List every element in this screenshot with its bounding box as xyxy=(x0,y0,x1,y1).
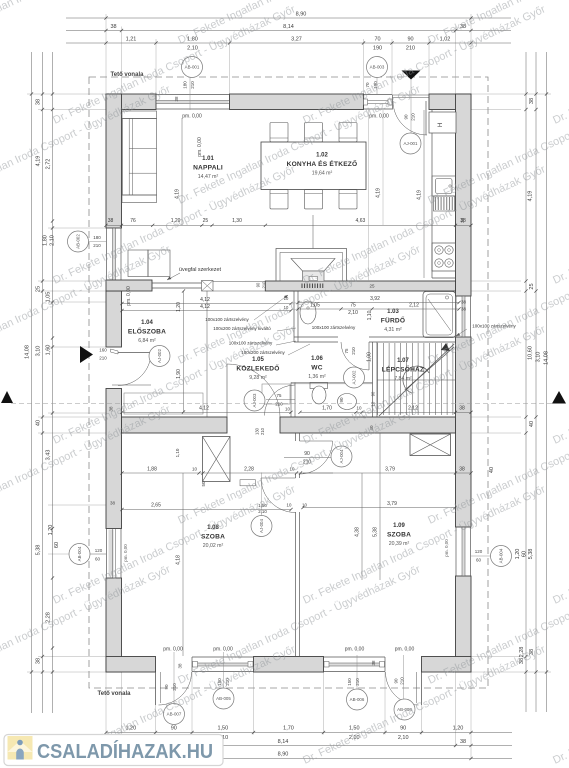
right dimension lines xyxy=(456,52,552,712)
svg-text:KÖZLEKEDŐ: KÖZLEKEDŐ xyxy=(236,364,279,373)
svg-text:üvegfal szerkezet: üvegfal szerkezet xyxy=(179,267,221,273)
svg-text:1.07: 1.07 xyxy=(397,358,409,364)
interior wall pier left of glass wall xyxy=(106,280,152,291)
svg-text:90: 90 xyxy=(404,114,409,120)
svg-text:KONYHA ÉS ÉTKEZŐ: KONYHA ÉS ÉTKEZŐ xyxy=(287,159,358,168)
svg-text:10: 10 xyxy=(285,407,290,412)
dining chairs top row xyxy=(270,123,288,142)
svg-text:1,10: 1,10 xyxy=(367,310,373,320)
window AB-002 (1,80) left wall xyxy=(106,228,108,291)
section triangle far left xyxy=(1,391,13,403)
svg-text:Tető vonala: Tető vonala xyxy=(98,691,132,697)
svg-text:8,90: 8,90 xyxy=(278,752,289,758)
svg-text:1,36 m²: 1,36 m² xyxy=(308,374,326,380)
svg-text:210: 210 xyxy=(411,113,416,121)
sofa in living room xyxy=(122,111,157,119)
marker AB-004 left wall xyxy=(90,553,106,555)
wc hand basin xyxy=(338,394,357,410)
interior dim line bedroom 1.09 top xyxy=(303,472,471,474)
svg-text:150: 150 xyxy=(347,678,352,686)
exterior wall bottom segments xyxy=(106,657,156,673)
kitchen stove with burners xyxy=(432,243,456,271)
svg-text:3,10: 3,10 xyxy=(536,352,542,363)
svg-text:76: 76 xyxy=(130,218,136,224)
svg-text:1,00: 1,00 xyxy=(367,352,373,362)
svg-text:90: 90 xyxy=(164,684,169,690)
svg-text:1,70: 1,70 xyxy=(283,726,294,732)
svg-text:38: 38 xyxy=(460,218,465,224)
marker AJ-001 xyxy=(410,79,412,133)
marker AJ-002 bathroom door xyxy=(344,367,365,388)
closet block with X in bedroom 1.09 xyxy=(410,434,451,456)
svg-text:AJ-002: AJ-002 xyxy=(157,348,162,362)
wc toilet xyxy=(310,383,328,389)
svg-text:1.06: 1.06 xyxy=(311,356,323,362)
bottom dimension lines xyxy=(104,672,512,760)
door AB-007 bottom wall opening with swing arc xyxy=(155,657,157,672)
svg-text:1.02: 1.02 xyxy=(316,153,328,159)
svg-text:210: 210 xyxy=(260,427,265,435)
svg-text:25: 25 xyxy=(36,286,42,292)
svg-text:180: 180 xyxy=(183,81,188,89)
svg-text:14,08: 14,08 xyxy=(544,351,550,365)
svg-text:7,84 m²: 7,84 m² xyxy=(394,376,412,382)
svg-text:4,19: 4,19 xyxy=(417,190,423,200)
marker AB-004 right wall xyxy=(471,555,491,557)
window bathroom right wall xyxy=(455,296,457,337)
svg-text:1.01: 1.01 xyxy=(202,156,214,162)
door AB-008 bottom wall opening with swing arc xyxy=(384,657,386,672)
svg-text:10: 10 xyxy=(284,296,289,301)
svg-text:38: 38 xyxy=(371,660,376,666)
svg-text:38: 38 xyxy=(461,300,467,305)
svg-text:70: 70 xyxy=(374,37,380,43)
svg-text:210: 210 xyxy=(172,683,177,691)
window AB-004 (1,20) right wall xyxy=(455,527,457,576)
staircase landing line xyxy=(377,379,456,381)
marker AB-005 xyxy=(223,652,225,688)
svg-text:2,72: 2,72 xyxy=(46,159,52,170)
svg-text:38: 38 xyxy=(461,307,467,312)
svg-text:pm. 0,00: pm. 0,00 xyxy=(126,286,132,306)
svg-text:AB-003: AB-003 xyxy=(370,65,385,70)
svg-text:4,12: 4,12 xyxy=(200,304,210,310)
interior dim line bedroom 1.08 middle xyxy=(122,509,291,511)
svg-text:60: 60 xyxy=(54,542,60,548)
staircase direction arrow xyxy=(403,366,429,393)
svg-text:10,60: 10,60 xyxy=(528,346,534,360)
closet in entrance hall xyxy=(124,393,203,414)
svg-text:4,12: 4,12 xyxy=(200,297,210,303)
svg-text:1,21: 1,21 xyxy=(126,37,137,43)
svg-text:210: 210 xyxy=(351,347,356,355)
kitchen dishwasher hatched xyxy=(434,196,455,211)
north/entry triangle top xyxy=(402,71,421,80)
staircase diagonal lines xyxy=(379,344,454,416)
bathroom sink xyxy=(300,301,316,324)
svg-text:40: 40 xyxy=(36,420,42,426)
roof outline dashed (Teto vonala) xyxy=(89,77,488,688)
glass door opening in glass wall xyxy=(213,281,265,283)
svg-text:NAPPALI: NAPPALI xyxy=(193,165,223,172)
svg-text:2,10: 2,10 xyxy=(348,310,358,316)
dining table xyxy=(261,142,366,190)
bedroom partition wall xyxy=(295,433,297,441)
entry arrow left wall xyxy=(80,346,93,363)
svg-text:210: 210 xyxy=(99,356,107,361)
interior dim line bedroom 1.09 middle xyxy=(303,507,455,509)
svg-text:H: H xyxy=(438,123,444,127)
tv bench in living room xyxy=(128,250,148,277)
svg-text:38: 38 xyxy=(174,96,179,102)
svg-text:1,20: 1,20 xyxy=(176,302,182,312)
entrance door AJ-002 left wall opening with swing arc xyxy=(107,346,122,348)
svg-text:210: 210 xyxy=(355,678,360,686)
svg-text:AJ-001: AJ-001 xyxy=(404,141,418,146)
svg-text:10: 10 xyxy=(192,467,198,472)
svg-text:AB-005: AB-005 xyxy=(216,696,231,701)
door AJ-002 bathroom swing xyxy=(368,342,370,370)
chimney block with X in bedroom 1.08 xyxy=(203,437,231,482)
shelf near chimney xyxy=(240,480,255,486)
interior dim vertical hallway xyxy=(183,291,185,412)
svg-text:210: 210 xyxy=(400,677,405,685)
svg-text:60: 60 xyxy=(476,558,482,563)
svg-text:1,50: 1,50 xyxy=(217,726,228,732)
svg-text:AB-004: AB-004 xyxy=(77,546,82,561)
interior wall below bathroom xyxy=(294,336,338,338)
svg-text:1,20: 1,20 xyxy=(515,549,521,560)
svg-text:1,20: 1,20 xyxy=(453,726,464,732)
svg-text:2,10: 2,10 xyxy=(50,235,56,246)
door AJ-003 swing into hallway xyxy=(226,364,228,417)
bathtub in bathroom xyxy=(423,292,456,338)
svg-text:40: 40 xyxy=(529,421,535,427)
svg-text:1.04: 1.04 xyxy=(141,320,153,326)
svg-text:8,90: 8,90 xyxy=(296,12,307,18)
left dimension lines xyxy=(25,52,122,713)
svg-text:3,27: 3,27 xyxy=(291,37,302,43)
svg-text:4,19: 4,19 xyxy=(528,191,534,202)
window AB-003 (70) top wall xyxy=(364,94,393,96)
interior dim vertical living room xyxy=(181,118,183,225)
svg-text:190: 190 xyxy=(373,46,382,52)
svg-text:40: 40 xyxy=(489,467,495,473)
svg-text:4,31 m²: 4,31 m² xyxy=(384,327,402,333)
svg-text:60: 60 xyxy=(522,551,528,557)
marker AB-002 left xyxy=(89,241,107,243)
glass wall (uvegfal szerkezet) xyxy=(152,282,202,284)
svg-text:2,65: 2,65 xyxy=(151,503,161,509)
window AB-004 (1,20) left wall xyxy=(106,529,108,579)
svg-text:5,38: 5,38 xyxy=(36,545,42,556)
interior dim line living and kitchen horizontal xyxy=(106,224,471,226)
svg-text:90: 90 xyxy=(407,37,413,43)
svg-text:3,79: 3,79 xyxy=(387,501,397,507)
interior dim vertical bedroom 1.08 xyxy=(182,473,184,656)
kitchen counter along right wall xyxy=(431,110,433,279)
exterior wall right segments xyxy=(456,94,472,296)
svg-text:3,10: 3,10 xyxy=(36,346,42,357)
svg-text:FÜRDŐ: FÜRDŐ xyxy=(381,316,405,325)
svg-text:4,63: 4,63 xyxy=(356,218,366,224)
door WC 75 swing xyxy=(290,383,292,418)
svg-text:19,64 m²: 19,64 m² xyxy=(312,171,333,177)
exterior wall top segments xyxy=(106,94,156,110)
svg-text:pm. 0,00: pm. 0,00 xyxy=(182,114,202,120)
svg-text:AJ-004: AJ-004 xyxy=(259,518,264,532)
logo csaladihazak.hu xyxy=(4,735,223,766)
vent ticks on wall under fireplace xyxy=(301,284,303,289)
svg-text:AB-006: AB-006 xyxy=(350,697,365,702)
svg-text:38: 38 xyxy=(110,501,116,506)
svg-text:AB-002: AB-002 xyxy=(76,234,81,249)
svg-text:10: 10 xyxy=(287,503,292,508)
svg-text:75: 75 xyxy=(344,348,349,354)
svg-text:pm. 0,00: pm. 0,00 xyxy=(395,647,415,653)
fireplace unit between living and hallway xyxy=(276,249,347,282)
wc cabinet xyxy=(262,384,290,404)
svg-text:25: 25 xyxy=(529,283,535,289)
svg-text:38: 38 xyxy=(108,218,114,224)
svg-text:38: 38 xyxy=(36,658,42,664)
svg-text:210: 210 xyxy=(190,81,195,89)
svg-text:90: 90 xyxy=(256,282,261,287)
marker AJ-003 xyxy=(244,390,265,411)
svg-text:ELŐSZOBA: ELŐSZOBA xyxy=(128,327,166,336)
svg-text:1,70: 1,70 xyxy=(322,406,332,412)
svg-text:90: 90 xyxy=(371,391,376,396)
svg-text:25: 25 xyxy=(369,284,375,289)
top dimension lines xyxy=(66,12,511,95)
svg-text:120: 120 xyxy=(475,549,483,554)
interior wall between WC and staircase xyxy=(372,342,374,417)
svg-text:WC: WC xyxy=(311,365,322,372)
kitchen appliance H (fridge) xyxy=(429,112,456,133)
partition elore/kozlekedo xyxy=(206,291,208,417)
section triangle far right xyxy=(552,391,566,404)
svg-text:75: 75 xyxy=(277,393,282,398)
svg-text:120: 120 xyxy=(95,548,103,553)
svg-text:8,14: 8,14 xyxy=(278,739,289,745)
svg-text:CSALADÍHAZAK.HU: CSALADÍHAZAK.HU xyxy=(37,740,213,763)
svg-text:pm. 0,00: pm. 0,00 xyxy=(345,647,365,653)
svg-text:5,38: 5,38 xyxy=(528,549,534,560)
svg-text:5,38: 5,38 xyxy=(373,527,379,537)
marker AJ-004 in bedroom 1.08 xyxy=(251,516,272,537)
svg-text:4,12: 4,12 xyxy=(199,406,209,412)
marker AB-007 xyxy=(173,652,175,704)
kitchen sink unit xyxy=(432,176,456,196)
marker AJ-004 xyxy=(331,446,352,467)
svg-text:AJ-002: AJ-002 xyxy=(352,370,357,384)
svg-text:1,20: 1,20 xyxy=(48,525,54,536)
marker AB-008 xyxy=(402,655,404,699)
svg-text:AB-004: AB-004 xyxy=(499,548,504,563)
svg-text:1,60: 1,60 xyxy=(46,345,52,356)
svg-text:1.03: 1.03 xyxy=(387,309,399,315)
svg-text:90: 90 xyxy=(339,397,344,403)
svg-text:1,80: 1,80 xyxy=(43,235,49,246)
window W2 extension lines into kitchen xyxy=(368,110,370,281)
svg-text:SZOBA: SZOBA xyxy=(387,532,411,539)
svg-text:3,92: 3,92 xyxy=(370,296,380,302)
svg-text:6,84 m²: 6,84 m² xyxy=(138,338,156,344)
svg-text:100x100 zártszelvény: 100x100 zártszelvény xyxy=(205,317,249,322)
interior dim lines hallway top xyxy=(122,303,291,305)
svg-text:90: 90 xyxy=(394,678,399,684)
svg-text:AJ-003: AJ-003 xyxy=(252,393,257,407)
staircase treads xyxy=(378,343,453,415)
svg-text:4,18: 4,18 xyxy=(176,555,182,565)
door AJ-004 between partition swing into bedroom 1.09 xyxy=(300,440,333,442)
marker AB-003 xyxy=(376,78,378,95)
svg-text:1.05: 1.05 xyxy=(252,357,264,363)
interior dim vertical kitchen xyxy=(423,110,425,278)
svg-text:3,79: 3,79 xyxy=(385,467,395,473)
section line dashed across xyxy=(11,403,552,405)
svg-text:2,10: 2,10 xyxy=(398,735,409,741)
svg-text:160: 160 xyxy=(99,348,107,353)
svg-text:1.09: 1.09 xyxy=(393,523,405,529)
interior wall bathroom left xyxy=(293,291,295,342)
interior dim line bedroom 1.08 top xyxy=(122,472,333,474)
svg-text:1,88: 1,88 xyxy=(147,467,157,473)
svg-text:8,14: 8,14 xyxy=(283,24,294,30)
interior dim lines hallway bottom xyxy=(122,411,291,413)
svg-text:50: 50 xyxy=(201,481,206,487)
svg-text:LÉPCSŐHÁZ: LÉPCSŐHÁZ xyxy=(382,365,424,374)
svg-text:14,08: 14,08 xyxy=(25,345,31,359)
door AJ-004 swing into bedroom 1.08 xyxy=(261,477,296,479)
svg-text:38: 38 xyxy=(459,467,465,473)
door AJ-001 top wall opening with swing arc xyxy=(392,95,394,110)
svg-text:20,02 m²: 20,02 m² xyxy=(203,543,224,549)
marker AJ-002 entrance xyxy=(149,346,170,367)
interior wall band between living area and hallway xyxy=(265,281,455,291)
svg-text:210: 210 xyxy=(406,46,415,52)
dining chairs bottom row xyxy=(270,190,288,209)
svg-text:10: 10 xyxy=(302,503,307,508)
svg-text:60: 60 xyxy=(95,557,101,562)
svg-text:4,38: 4,38 xyxy=(355,527,361,537)
svg-text:38: 38 xyxy=(460,739,466,745)
svg-text:100x100 zártszelvény: 100x100 zártszelvény xyxy=(312,325,356,330)
window AB-006 (1,50) bottom wall xyxy=(324,656,386,658)
svg-text:38: 38 xyxy=(110,24,116,30)
svg-text:2,12: 2,12 xyxy=(409,303,419,309)
svg-text:1,30: 1,30 xyxy=(232,218,242,224)
svg-text:90: 90 xyxy=(400,726,406,732)
window AB-005 (1,50) bottom wall xyxy=(192,656,254,658)
svg-text:90: 90 xyxy=(171,726,177,732)
svg-text:2,28: 2,28 xyxy=(244,467,254,473)
svg-text:pm. 0,00: pm. 0,00 xyxy=(197,137,203,157)
svg-text:38: 38 xyxy=(529,98,535,104)
interior dim verticals bedroom 1.09 xyxy=(361,473,363,580)
thin line WC bottom xyxy=(291,382,373,384)
marker AB-001 xyxy=(189,78,191,111)
svg-text:pm. 0,00: pm. 0,00 xyxy=(163,647,183,653)
svg-text:9,28 m²: 9,28 m² xyxy=(249,375,267,381)
svg-text:38: 38 xyxy=(178,663,183,669)
interior dim lines bathroom xyxy=(298,302,459,304)
svg-text:75: 75 xyxy=(350,303,356,309)
svg-text:pm. 0,00: pm. 0,00 xyxy=(123,544,128,562)
svg-text:38: 38 xyxy=(459,406,465,412)
exterior wall left segments xyxy=(106,94,122,228)
svg-text:210: 210 xyxy=(93,243,101,248)
interior wall band above bedrooms xyxy=(122,417,228,433)
svg-text:130: 130 xyxy=(255,427,260,435)
svg-text:38: 38 xyxy=(36,99,42,105)
svg-text:4,19: 4,19 xyxy=(376,188,382,198)
svg-text:25: 25 xyxy=(203,218,209,224)
marker AB-006 xyxy=(356,655,358,689)
svg-text:180: 180 xyxy=(93,235,101,240)
svg-text:1,10: 1,10 xyxy=(175,448,180,457)
window AB-001 (1,80) top wall xyxy=(156,94,230,96)
